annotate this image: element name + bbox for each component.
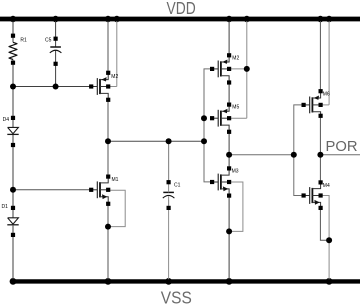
svg-text:POR: POR [326, 139, 358, 155]
svg-text:M4: M4 [323, 183, 330, 189]
svg-text:M1: M1 [112, 177, 119, 183]
svg-text:C5: C5 [45, 38, 52, 44]
svg-text:D1: D1 [2, 204, 9, 210]
svg-text:D4: D4 [3, 117, 10, 123]
svg-text:VSS: VSS [161, 288, 192, 308]
svg-text:M6: M6 [323, 91, 330, 97]
svg-text:M5: M5 [232, 104, 239, 110]
svg-text:R1: R1 [20, 38, 27, 44]
svg-text:C1: C1 [174, 183, 181, 189]
svg-text:M2: M2 [232, 56, 239, 62]
svg-text:M3: M3 [232, 168, 239, 174]
svg-text:VDD: VDD [167, 0, 196, 18]
svg-text:M2: M2 [111, 74, 118, 80]
